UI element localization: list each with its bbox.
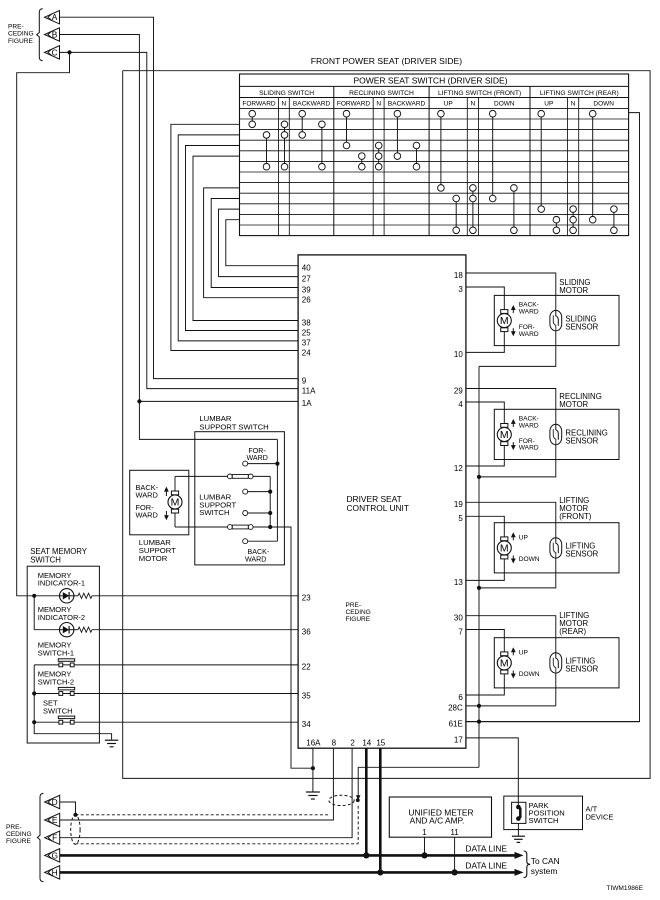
svg-text:37: 37	[302, 339, 311, 348]
lumbar support motor box	[130, 470, 189, 535]
wire pin 10 to sliding motor bottom	[466, 332, 504, 353]
label SLIDING MOTOR	[559, 278, 590, 295]
svg-text:G: G	[51, 850, 58, 860]
lifting front UP contacts rows A-H	[438, 110, 445, 191]
svg-text:61E: 61E	[449, 719, 463, 728]
svg-text:WARD: WARD	[519, 331, 539, 338]
ground for seat memory switch	[105, 740, 119, 747]
direction arrows and labels for motor M1	[511, 302, 539, 338]
data line wire from connector H (CAN low)	[60, 871, 516, 874]
control unit left pin labels	[302, 264, 316, 730]
wire sensor bus to cable shield drain	[356, 767, 479, 802]
svg-text:25: 25	[302, 328, 311, 337]
wire pin 12 to reclining motor bottom	[466, 446, 504, 467]
svg-text:26: 26	[302, 296, 311, 305]
svg-text:AND A/C AMP.: AND A/C AMP.	[410, 816, 465, 826]
svg-text:CEDING: CEDING	[6, 831, 32, 838]
svg-text:8: 8	[332, 738, 337, 747]
svg-text:D: D	[52, 797, 58, 807]
lumbar switch feed bus	[275, 439, 279, 541]
junction on wire C	[67, 50, 71, 54]
wire table row to pin 38	[193, 156, 298, 320]
table header POWER SEAT SWITCH (DRIVER SIDE)	[353, 75, 507, 85]
wire pin 6 to lifting rear motor bottom	[466, 674, 504, 695]
wire pin 14 to data line	[363, 748, 369, 858]
wire pin 30 to lifting rear sensor	[466, 616, 556, 653]
sliding switch FORWARD contacts rows C-F	[263, 132, 270, 170]
lumbar middle contact 1	[243, 489, 271, 494]
direction arrows and labels for motor M2	[511, 416, 539, 452]
svg-text:11: 11	[451, 828, 459, 837]
connector D (preceding figure)	[45, 795, 60, 808]
svg-text:24: 24	[302, 348, 311, 357]
reclining switch FORWARD contacts rows A-D	[343, 110, 350, 148]
svg-text:M: M	[500, 429, 509, 441]
wire connector A to pin 9	[60, 17, 299, 378]
svg-text:MOTOR: MOTOR	[559, 400, 588, 409]
wire table row A to 61E bus (right side)	[466, 113, 640, 722]
shield ellipse at control unit side	[329, 795, 354, 805]
header LIFTING SWITCH (FRONT)	[438, 90, 521, 97]
brace To CAN system	[524, 851, 560, 878]
power seat switch table grid	[240, 74, 629, 236]
lifting rear DOWN contacts rows J-L	[611, 206, 618, 234]
wire connector C branch to seat memory switch	[17, 52, 70, 595]
lifting rear N contacts rows J-K-L	[570, 206, 577, 234]
svg-text:36: 36	[302, 628, 311, 637]
svg-text:SWITCH: SWITCH	[43, 707, 73, 716]
svg-text:F: F	[52, 833, 57, 843]
svg-text:6: 6	[458, 693, 463, 702]
set switch to pin 34	[34, 699, 298, 725]
lumbar motor direction labels	[136, 483, 169, 520]
sliding switch N contacts rows B-C-F	[281, 121, 288, 170]
svg-text:1: 1	[422, 828, 426, 837]
svg-text:M: M	[500, 658, 509, 670]
wire pin 5 to lifting front motor top	[466, 516, 504, 537]
wire lumbar feed from pin 1A junction	[137, 399, 277, 439]
svg-text:E: E	[52, 815, 58, 825]
svg-text:M: M	[500, 315, 509, 327]
label PRE-CEDING FIGURE (top left)	[8, 24, 34, 45]
column headers row	[242, 101, 614, 108]
svg-text:28C: 28C	[448, 704, 463, 713]
wire pin 61E to right bus	[466, 721, 640, 723]
position sensor S1 (sliding sensor)	[550, 310, 562, 330]
svg-text:29: 29	[454, 386, 463, 395]
wire pin 29 to reclining sensor	[466, 389, 556, 425]
lifting rear UP contacts rows K-L	[553, 216, 560, 233]
svg-text:UP: UP	[519, 650, 529, 657]
reclining switch BACKWARD contacts rows A-E	[394, 110, 401, 159]
label SLIDING SENSOR	[565, 314, 598, 331]
connector H (preceding figure)	[45, 866, 60, 879]
svg-text:1A: 1A	[302, 399, 312, 408]
wire pin 7 to lifting rear motor top	[466, 630, 504, 652]
park position switch symbol	[512, 802, 526, 823]
ground for pin 16A	[306, 792, 320, 799]
wire table row to pin 24	[171, 124, 298, 350]
label SEAT MEMORY SWITCH	[30, 547, 88, 565]
lumbar support switch box S5	[195, 432, 285, 565]
svg-text:14: 14	[362, 738, 371, 747]
svg-text:To CAN: To CAN	[531, 856, 560, 866]
wire connector D to shield	[60, 802, 78, 817]
label LIFTING MOTOR (REAR)	[559, 611, 589, 636]
motor M5 (lumbar support motor)	[168, 491, 182, 513]
svg-text:A: A	[52, 12, 58, 22]
label LUMBAR SUPPORT SWITCH (inside box)	[199, 493, 236, 517]
svg-text:FIGURE: FIGURE	[6, 838, 32, 845]
connector C (preceding figure)	[45, 46, 60, 59]
svg-text:DOWN: DOWN	[519, 556, 540, 563]
lumbar BACKWARD contact	[243, 539, 278, 564]
lumbar ground wire to 16A ground	[270, 527, 313, 768]
svg-text:DATA LINE: DATA LINE	[465, 860, 507, 870]
wire table row to pin 37	[178, 135, 298, 341]
lumbar slider contact upper (motor backward)	[179, 474, 270, 479]
svg-text:40: 40	[302, 264, 311, 273]
svg-text:FIGURE: FIGURE	[346, 616, 371, 623]
svg-text:DOWN: DOWN	[494, 101, 515, 108]
svg-text:N: N	[282, 101, 287, 108]
wire pin 17 to park position switch	[466, 738, 518, 806]
position sensor S3 (lifting sensor)	[550, 538, 562, 558]
unified meter and A/C amp box	[389, 797, 491, 837]
label RECLINING MOTOR	[559, 392, 601, 409]
position sensor S2 (reclining sensor)	[550, 424, 562, 444]
svg-text:MOTOR: MOTOR	[139, 554, 168, 563]
wire pin 4 to reclining motor top	[466, 402, 504, 424]
svg-text:M: M	[171, 497, 180, 509]
wire connector C to pin 11A	[60, 52, 299, 388]
svg-text:BACKWARD: BACKWARD	[388, 101, 426, 108]
svg-text:UP: UP	[544, 101, 553, 108]
connector G (preceding figure)	[45, 849, 60, 862]
wire table row to pin 27	[219, 209, 299, 277]
header LIFTING SWITCH (REAR)	[540, 90, 619, 97]
sliding switch FORWARD contacts rows A-B	[249, 110, 256, 127]
wire ground loop frame	[123, 71, 650, 779]
svg-text:LIFTING SWITCH (FRONT): LIFTING SWITCH (FRONT)	[438, 90, 521, 97]
wire lifting rear sensor to pin 28C wire	[555, 673, 557, 706]
lifting front DOWN contacts rows H-L	[511, 185, 518, 234]
svg-text:WARD: WARD	[519, 445, 539, 452]
svg-text:(FRONT): (FRONT)	[559, 512, 591, 521]
connector E (preceding figure)	[45, 813, 60, 826]
wire pin 3 to sliding motor top	[466, 287, 504, 310]
wire pin 28C	[466, 705, 556, 707]
svg-text:SUPPORT SWITCH: SUPPORT SWITCH	[199, 423, 268, 432]
wire pin 16A to ground	[311, 748, 315, 791]
svg-text:11A: 11A	[302, 386, 316, 395]
svg-text:22: 22	[302, 663, 311, 672]
svg-text:2: 2	[350, 738, 355, 747]
header RECLINING SWITCH	[349, 90, 414, 97]
svg-text:WARD: WARD	[519, 309, 539, 316]
lifting front N contacts rows H-I-L	[470, 185, 477, 234]
svg-text:FIGURE: FIGURE	[8, 38, 34, 45]
label RECLINING SENSOR	[565, 428, 607, 445]
lumbar middle contact 2	[243, 511, 271, 516]
memory switch-1 to pin 22	[34, 640, 298, 666]
reclining switch N contacts rows D-E-F	[375, 142, 382, 170]
svg-text:WARD: WARD	[136, 510, 158, 519]
svg-text:M: M	[500, 543, 509, 555]
RECLINING MOTOR box	[494, 409, 619, 459]
svg-text:9: 9	[302, 376, 307, 385]
wire table row to pin 25	[186, 146, 299, 331]
wire unified meter pin 1 to data line	[421, 837, 427, 858]
svg-text:35: 35	[302, 691, 311, 700]
label PARK POSITION SWITCH	[529, 801, 565, 825]
svg-text:DOWN: DOWN	[593, 101, 614, 108]
svg-text:38: 38	[302, 318, 311, 327]
svg-text:H: H	[52, 867, 58, 877]
wire pin 19 to lifting front sensor	[466, 502, 556, 537]
wire unified meter pin 11 to data line	[452, 837, 458, 875]
svg-text:DOWN: DOWN	[519, 671, 540, 678]
memory switch-2 to pin 35	[34, 670, 298, 696]
svg-text:N: N	[376, 101, 381, 108]
svg-text:18: 18	[454, 271, 463, 280]
svg-text:C: C	[51, 47, 57, 57]
lifting rear UP contacts rows A-J	[538, 110, 545, 212]
svg-text:5: 5	[458, 514, 463, 523]
svg-text:19: 19	[454, 500, 463, 509]
bracket for connectors A B C	[37, 9, 43, 61]
svg-text:(REAR): (REAR)	[559, 627, 586, 636]
svg-text:INDICATOR-1: INDICATOR-1	[38, 579, 85, 588]
sliding switch BACKWARD contacts rows B-F	[319, 121, 326, 170]
svg-text:23: 23	[302, 594, 311, 603]
wire pin 13 to lifting front motor bottom	[466, 559, 504, 581]
svg-text:WARD: WARD	[245, 556, 266, 564]
label DATA LINE (upper)	[465, 843, 507, 853]
svg-text:CONTROL UNIT: CONTROL UNIT	[347, 503, 410, 513]
svg-text:27: 27	[302, 274, 311, 283]
wire pin 8 to connector E (shielded)	[60, 748, 334, 820]
reclining switch FORWARD contacts rows E-F	[359, 153, 366, 170]
LIFTING MOTOR (FRONT) box	[494, 523, 619, 573]
label LIFTING SENSOR	[565, 657, 598, 674]
svg-text:17: 17	[454, 736, 463, 745]
position sensor S4 (lifting sensor)	[550, 653, 562, 673]
connector B (preceding figure)	[45, 28, 60, 41]
svg-text:12: 12	[454, 464, 463, 473]
svg-text:FRONT POWER SEAT (DRIVER SIDE): FRONT POWER SEAT (DRIVER SIDE)	[311, 56, 462, 66]
wire pin 18 to sliding sensor	[466, 273, 556, 310]
svg-text:DEVICE: DEVICE	[586, 812, 614, 821]
arrowhead data line lower	[515, 869, 524, 876]
svg-text:LIFTING SWITCH (REAR): LIFTING SWITCH (REAR)	[540, 90, 619, 97]
svg-text:WARD: WARD	[519, 423, 539, 430]
lifting rear DOWN contacts rows A-K	[589, 110, 596, 223]
header SLIDING SWITCH	[259, 90, 314, 97]
svg-text:30: 30	[454, 614, 463, 623]
label PRE-CEDING FIGURE (bottom left)	[6, 824, 32, 845]
svg-text:34: 34	[302, 720, 311, 729]
svg-text:PRE-: PRE-	[6, 824, 22, 831]
svg-text:N: N	[571, 101, 576, 108]
direction arrows and labels for motor M3	[511, 532, 540, 563]
svg-text:WARD: WARD	[136, 491, 158, 500]
shielded cable dashed envelope	[76, 806, 359, 844]
svg-text:3: 3	[458, 285, 463, 294]
svg-text:WARD: WARD	[247, 454, 268, 462]
wire table row to pin 39	[211, 199, 298, 288]
svg-text:N: N	[471, 101, 476, 108]
wire table row to pin 40	[226, 220, 298, 266]
svg-text:16A: 16A	[306, 738, 321, 747]
wire pin 15 to data line	[377, 748, 383, 875]
shield ellipse at connector side	[71, 815, 80, 844]
label LUMBAR SUPPORT SWITCH (title)	[199, 414, 268, 432]
lumbar switch wiper bus	[268, 476, 272, 529]
label LIFTING SENSOR	[565, 542, 598, 559]
lifting front UP contacts rows I-L	[453, 195, 460, 233]
svg-text:TIWM1986E: TIWM1986E	[606, 885, 643, 892]
svg-text:CEDING: CEDING	[8, 31, 34, 38]
wire connector B to pin 1A	[60, 35, 299, 402]
wire pin 2 to connector F (shielded)	[60, 748, 352, 838]
svg-text:BACKWARD: BACKWARD	[293, 101, 331, 108]
svg-text:10: 10	[454, 350, 463, 359]
label LIFTING MOTOR (FRONT)	[559, 496, 591, 521]
svg-text:POWER SEAT SWITCH (DRIVER SIDE: POWER SEAT SWITCH (DRIVER SIDE)	[353, 75, 507, 85]
wire sliding sensor to sensor bus	[479, 331, 556, 367]
driver seat control unit box U1	[298, 255, 466, 748]
svg-text:system: system	[531, 866, 558, 876]
svg-text:4: 4	[458, 400, 463, 409]
memory indicator bus	[32, 594, 36, 630]
svg-text:RECLINING SWITCH: RECLINING SWITCH	[349, 90, 414, 97]
svg-text:SENSOR: SENSOR	[565, 550, 598, 559]
svg-text:SWITCH-2: SWITCH-2	[38, 678, 74, 687]
svg-text:SENSOR: SENSOR	[565, 322, 598, 331]
ground for park position switch	[512, 836, 525, 842]
svg-text:PRE-: PRE-	[346, 602, 362, 609]
wire table row to pin 26	[204, 188, 299, 298]
control unit bottom pin labels	[306, 738, 386, 747]
svg-text:SLIDING SWITCH: SLIDING SWITCH	[259, 90, 314, 97]
svg-text:SWITCH: SWITCH	[199, 508, 229, 517]
svg-text:SENSOR: SENSOR	[565, 665, 598, 674]
bracket for connectors D-H	[37, 793, 43, 882]
sensor common bus wire	[477, 366, 481, 767]
svg-text:UP: UP	[444, 101, 453, 108]
motor M4 (lifting (rear))	[497, 652, 511, 674]
memory indicator-2 LED and resistor to pin 36	[34, 605, 298, 637]
control unit right pin labels	[448, 271, 463, 745]
wire reclining sensor to sensor bus	[479, 445, 556, 477]
connector A (preceding figure)	[45, 11, 60, 24]
memory indicator-1 LED and resistor to pin 23	[34, 571, 298, 603]
wire lifting front sensor to sensor bus	[479, 558, 556, 588]
svg-text:SWITCH: SWITCH	[30, 556, 61, 565]
direction arrows and labels for motor M4	[511, 647, 540, 678]
svg-text:FORWARD: FORWARD	[337, 101, 371, 108]
svg-text:B: B	[52, 30, 58, 40]
svg-text:DATA LINE: DATA LINE	[465, 843, 507, 853]
svg-text:SENSOR: SENSOR	[565, 436, 598, 445]
motor M2 (reclining )	[497, 424, 511, 446]
sliding switch BACKWARD contacts rows A-C	[299, 110, 306, 138]
svg-text:UP: UP	[519, 535, 529, 542]
SLIDING MOTOR box	[494, 295, 619, 345]
connector F (preceding figure)	[45, 831, 60, 844]
svg-text:MOTOR: MOTOR	[559, 286, 588, 295]
diagram code TIWM1986E	[606, 885, 643, 892]
lifting front DOWN contacts rows A-I	[489, 110, 496, 201]
LIFTING MOTOR (REAR) box	[494, 638, 619, 688]
data line wire from connector G (CAN high)	[60, 854, 516, 857]
svg-text:SWITCH-1: SWITCH-1	[38, 648, 74, 657]
svg-text:CEDING: CEDING	[346, 609, 371, 616]
arrowhead data line upper	[515, 852, 524, 859]
memory switch ground bus	[32, 665, 112, 740]
svg-text:39: 39	[302, 285, 311, 294]
seat memory switch box	[27, 566, 99, 743]
title FRONT POWER SEAT (DRIVER SIDE)	[311, 56, 462, 66]
svg-text:INDICATOR-2: INDICATOR-2	[38, 613, 85, 622]
svg-text:7: 7	[458, 627, 463, 636]
motor M3 (lifting (front))	[497, 537, 511, 559]
svg-text:13: 13	[454, 578, 463, 587]
svg-text:PRE-: PRE-	[8, 24, 24, 31]
label DATA LINE (lower)	[465, 860, 507, 870]
label A/T DEVICE	[586, 805, 614, 822]
lumbar FORWARD contact	[243, 447, 278, 466]
svg-text:LUMBAR: LUMBAR	[199, 414, 231, 423]
svg-text:15: 15	[376, 738, 385, 747]
lumbar slider contact lower (motor forward / ground)	[179, 525, 270, 530]
wire park position switch to ground	[517, 823, 519, 835]
A/T device box	[504, 796, 583, 830]
lumbar motor wires to switch	[175, 476, 179, 527]
motor M1 (sliding )	[497, 310, 511, 332]
svg-text:FORWARD: FORWARD	[242, 101, 276, 108]
svg-text:SWITCH: SWITCH	[529, 816, 559, 825]
label LUMBAR SUPPORT MOTOR	[139, 538, 176, 563]
reclining switch BACKWARD contacts rows D-F	[413, 142, 420, 170]
